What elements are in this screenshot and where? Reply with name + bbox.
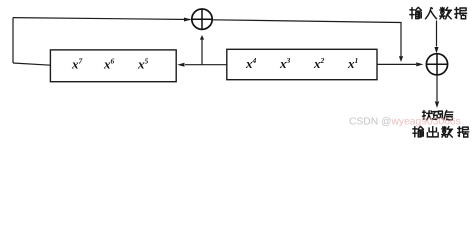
arrowhead down onto node B <box>399 56 403 62</box>
wire U2 output down <box>436 75 438 101</box>
arrowhead into U2 left <box>416 62 423 66</box>
wire top horizontal into XOR U1 <box>13 18 191 20</box>
arrowhead up into U1 bottom <box>200 35 204 40</box>
text input data (shu ru shu ju) <box>410 7 467 19</box>
arrowhead output down <box>435 101 439 108</box>
XOR adder U2 <box>426 54 447 75</box>
XOR adder U1 <box>192 9 212 29</box>
wire U1 output to corner <box>212 20 401 57</box>
arrowhead into U1 left <box>184 18 191 22</box>
text output data (shu chu shu ju) <box>413 127 469 138</box>
shift register B box <box>227 49 377 79</box>
wire register B output to XOR U2 <box>377 63 416 65</box>
wire register B to register A <box>185 64 227 66</box>
wire node tap up into U1 <box>201 39 203 65</box>
arrowhead into U2 top <box>434 47 438 53</box>
text scrambled (rao ma hou) <box>423 111 453 120</box>
arrowhead into register A right edge <box>177 63 184 67</box>
svg-text:CSDN @wyeag903066s: CSDN @wyeag903066s <box>349 117 461 128</box>
wire feedback left vertical <box>12 18 14 63</box>
wire feedback bottom horizontal into register A <box>13 63 51 65</box>
shift register A box <box>50 50 176 82</box>
wire input data vertical <box>436 21 438 47</box>
